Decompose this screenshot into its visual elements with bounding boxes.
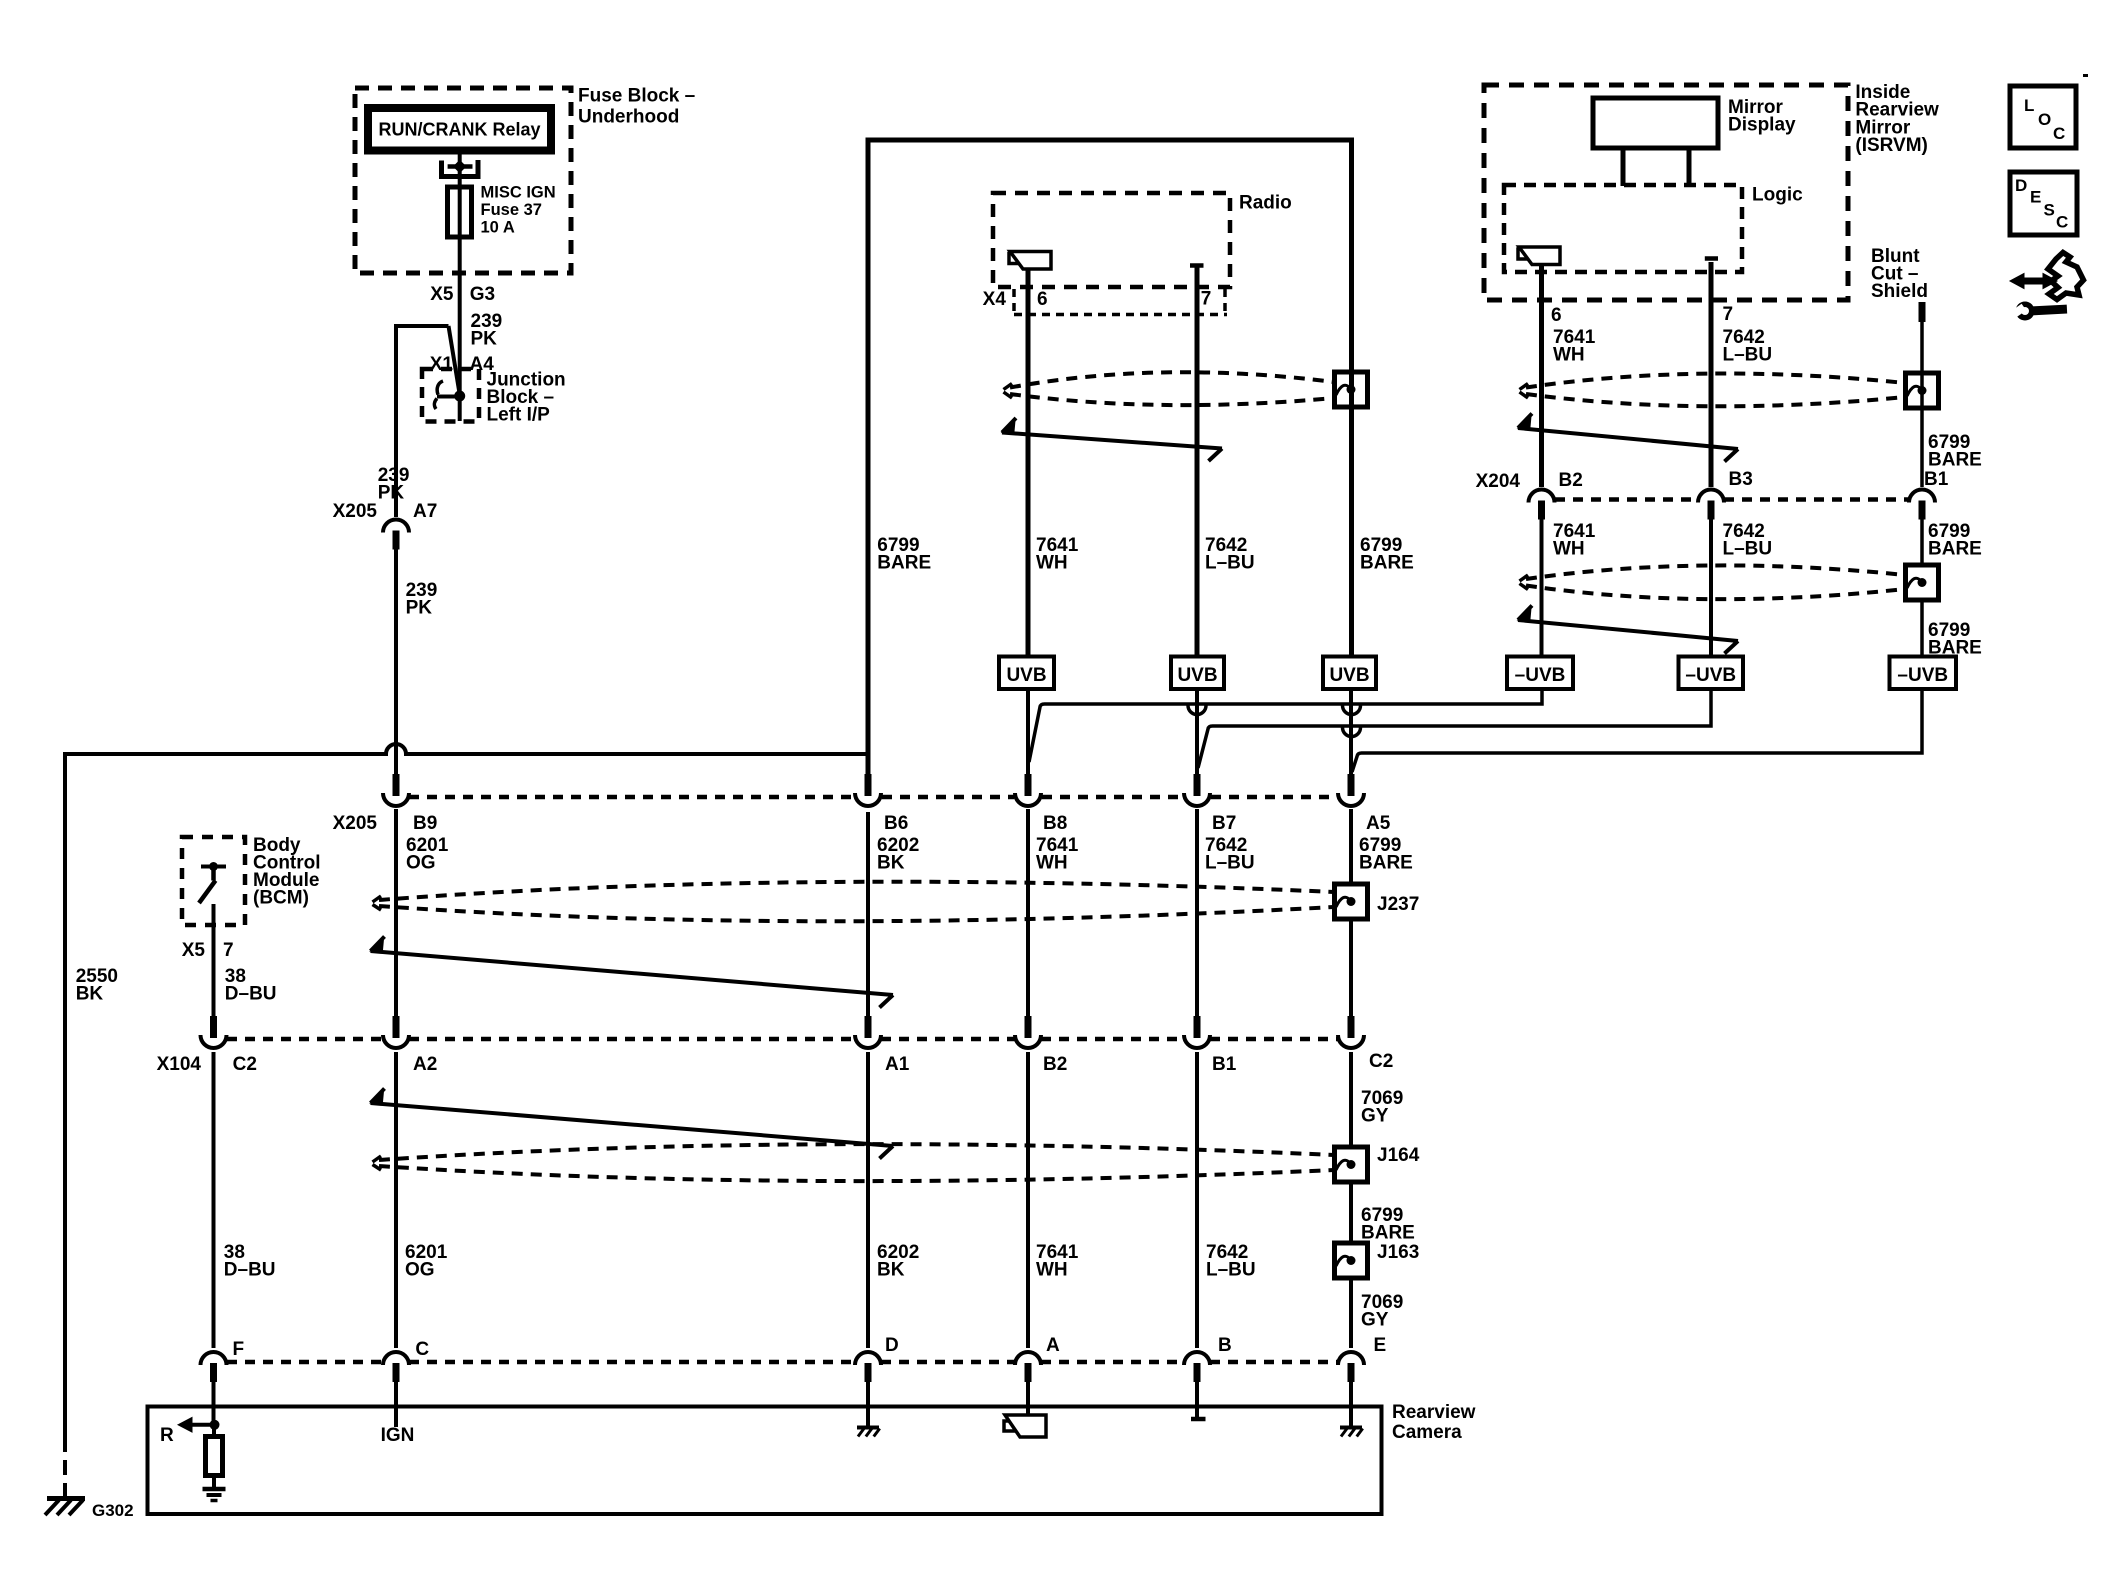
module radio dashed box [993,193,1230,287]
radio shield termination box [1335,372,1368,407]
connector X204 pin B3 [1698,490,1724,503]
corner tick mark [2083,74,2088,77]
shield loop X104 row [373,1156,382,1162]
wire B to camera minus [1195,1380,1199,1417]
twisted pair arrow radio [1002,418,1016,433]
legend double arrow [2010,274,2024,289]
connector X104 row dashed line [227,1037,383,1042]
svg-text:D–BU: D–BU [224,1260,276,1281]
svg-text:Camera: Camera [1392,1422,1462,1443]
legend LOC box [2010,86,2076,148]
svg-text:7: 7 [223,940,234,961]
junction block bus dot [454,391,465,402]
wire 7642 L-BU below X204 [1709,518,1713,657]
connector X104 pin B1 [1194,1016,1201,1038]
svg-text:X1: X1 [430,354,454,375]
connector X104 pin B2 [1025,1016,1032,1038]
inline label UVB 1 [999,657,1054,690]
wire radio pin6 7641 WH [1026,269,1031,657]
net join 7641 WH [1029,689,1542,762]
svg-text:PK: PK [378,483,405,504]
blunt shield termination box lower [1906,565,1939,600]
svg-text:J237: J237 [1377,894,1419,915]
wire 239 PK left leg upper [394,324,398,517]
svg-text:Display: Display [1728,115,1796,136]
junction block bus hook [437,381,443,395]
svg-text:X204: X204 [1476,471,1521,492]
svg-text:OG: OG [405,1260,435,1281]
svg-text:J164: J164 [1377,1145,1420,1166]
svg-text:C: C [2053,124,2065,143]
wire 2550 BK left vertical [63,752,67,1437]
svg-text:L–BU: L–BU [1723,539,1773,560]
wire 6202 BK seg2 [866,1052,870,1348]
svg-text:WH: WH [1553,345,1585,366]
wire relay output [458,151,462,168]
wire radio pin7 7642 L-BU [1195,266,1200,657]
svg-text:(BCM): (BCM) [253,888,309,909]
shield loop mirror upper [1520,384,1529,390]
connector pin A [1015,1352,1041,1365]
svg-text:Rearview: Rearview [1392,1402,1476,1423]
logic minus terminal [1705,256,1718,261]
wire 6201 OG seg1 [394,809,398,1017]
svg-text:UVB: UVB [1006,665,1046,686]
wire 7641 WH seg2 [1026,1052,1030,1348]
connector X205 pin B9 [393,774,400,796]
connector X205 pin B7 [1194,774,1201,796]
wire F to R input [212,1380,216,1425]
svg-text:Fuse 37: Fuse 37 [481,201,542,219]
inline label -UVB 3 [1890,657,1957,690]
shield loop mirror lower [1520,575,1529,581]
svg-text:PK: PK [406,598,433,619]
svg-text:G3: G3 [470,284,495,305]
wire 6201 OG seg2 [394,1052,398,1348]
twisted pair arrow X205 [371,937,385,952]
hop 7642 over 6799 [1343,728,1361,737]
svg-text:6: 6 [1551,305,1562,326]
wire 239 PK below A7 [394,549,398,776]
svg-text:MISC IGN: MISC IGN [481,184,556,202]
svg-text:X5: X5 [182,940,206,961]
svg-text:–UVB: –UVB [1685,665,1736,686]
svg-text:BK: BK [877,853,905,874]
svg-text:C2: C2 [1369,1051,1393,1072]
svg-text:IGN: IGN [381,1425,415,1446]
camera minus terminal [1191,1417,1206,1422]
splice J164 [1335,1147,1368,1182]
radio minus terminal [1190,263,1204,268]
hop 7641 over 7642 [1188,706,1206,715]
wire UVB2 to B7 [1195,689,1199,775]
svg-text:D: D [2015,176,2027,195]
connector X205 pin A7 [383,520,409,533]
twisted pair arrow mirror lower [1518,606,1532,621]
svg-text:L–BU: L–BU [1205,853,1255,874]
splice J237 [1335,884,1368,919]
inline label UVB 2 [1171,657,1224,690]
svg-text:WH: WH [1036,853,1068,874]
svg-text:X205: X205 [333,813,378,834]
wire 7069 GY seg2 [1349,919,1353,1017]
wire 7641 WH below X204 [1540,518,1544,657]
wire 6799 BARE below X204 [1920,518,1924,565]
camera ground rake E [1340,1426,1362,1430]
wire 7069 GY seg4 [1349,1278,1353,1348]
wire UVB1 to B8 [1026,689,1030,775]
svg-text:C: C [415,1339,429,1360]
svg-text:X104: X104 [157,1054,202,1075]
connector X205 pin A5 [1348,774,1355,796]
legend wrench [2012,302,2067,321]
camera internal ground [203,1487,226,1492]
svg-text:WH: WH [1553,539,1585,560]
mirror display legs [1621,148,1626,186]
svg-text:D: D [885,1335,899,1356]
svg-text:GY: GY [1361,1310,1389,1331]
svg-text:E: E [1374,1335,1387,1356]
connector X104 pin A2 [393,1016,400,1038]
svg-text:WH: WH [1036,553,1068,574]
svg-text:PK: PK [471,329,498,350]
svg-text:A5: A5 [1366,813,1391,834]
svg-text:Logic: Logic [1752,185,1803,206]
relay K RUN/CRANK box [368,108,551,151]
svg-text:–UVB: –UVB [1515,665,1566,686]
svg-text:GY: GY [1361,1106,1389,1127]
connector pin D [855,1352,881,1365]
svg-text:Shield: Shield [1871,281,1928,302]
svg-text:B: B [1218,1335,1232,1356]
svg-text:B1: B1 [1924,469,1949,490]
camera ground rake D [857,1426,879,1430]
module logic dashed box [1504,185,1742,272]
svg-text:A: A [1046,1335,1060,1356]
svg-text:E: E [2030,188,2041,207]
connector X104 pin C2 right [1348,1016,1355,1038]
wire mirror pin6 7641 WH [1539,264,1544,487]
fuse MISC IGN 37 body [448,187,472,237]
net join 7642 L-BU [1198,689,1711,768]
wire 7069 GY seg1 [1349,809,1353,884]
splice J163 [1335,1243,1368,1278]
wire 7642 L-BU seg1 [1195,809,1199,1017]
wire jumper to left leg [396,324,449,328]
wire 38 D-BU from BCM [212,904,216,1017]
wire D to camera ground [866,1380,870,1426]
svg-text:L–BU: L–BU [1723,345,1773,366]
wire 7641 WH seg1 [1026,809,1030,1017]
connector X205 pin B8 [1025,774,1032,796]
connector pin E [1338,1352,1364,1365]
wire through fuse [458,167,462,394]
svg-text:S: S [2044,201,2055,220]
connector pin C [383,1352,409,1365]
svg-text:J163: J163 [1377,1242,1419,1263]
svg-text:A7: A7 [413,501,437,522]
twisted pair arrow mirror upper [1518,414,1532,429]
svg-text:X205: X205 [333,501,378,522]
svg-text:D–BU: D–BU [225,984,277,1005]
svg-text:BARE: BARE [1928,638,1982,659]
connector X104 pin A1 [865,1016,872,1038]
svg-text:G302: G302 [92,1501,134,1520]
svg-text:BARE: BARE [1360,553,1414,574]
shield loop radio [1004,384,1013,390]
module ISRVM dashed box [1484,85,1848,300]
relay contact bar [448,164,473,169]
radio display icon [1009,254,1020,264]
svg-text:L–BU: L–BU [1205,553,1255,574]
wire mirror pin7 7642 L-BU [1709,262,1714,487]
connector pin B [1184,1352,1210,1365]
svg-text:B9: B9 [413,813,437,834]
camera connector row dashed line [227,1360,383,1365]
svg-text:BARE: BARE [1928,450,1982,471]
svg-text:L: L [2024,96,2034,115]
BCM switch contact [201,865,226,869]
svg-text:BK: BK [877,1260,905,1281]
svg-text:B7: B7 [1212,813,1236,834]
connector X4 shell [1012,289,1016,312]
wire 7069 GY seg3 [1349,1052,1353,1147]
net join 6799 BARE [1352,689,1922,772]
shield drain wire 6799 BARE box [868,140,1352,775]
svg-text:O: O [2038,110,2051,129]
wire UVB3 to A5 [1349,689,1353,775]
svg-text:Underhood: Underhood [578,107,679,128]
legend harness icon outline [2048,253,2084,300]
bus wire 2550 BK horizontal [65,744,866,754]
svg-text:R: R [160,1425,174,1446]
camera sensor icon [1004,1421,1015,1431]
camera R output arrow [178,1418,192,1433]
wire blunt cut 6799 BARE upper [1920,320,1924,487]
ground G302 symbol [47,1496,85,1501]
svg-text:RUN/CRANK Relay: RUN/CRANK Relay [378,120,540,140]
svg-text:F: F [233,1339,245,1360]
wire C to IGN input [394,1380,398,1427]
svg-text:B2: B2 [1559,470,1583,491]
wire 6799 BARE below box2 [1920,600,1924,657]
wire 38 D-BU seg2 [212,1052,216,1348]
blunt cut shield pin [1919,302,1926,322]
module rearview camera box [148,1407,1382,1515]
connector pin F [201,1352,227,1365]
junction block stub to box edge [458,396,462,421]
connector X204 pin B1 [1909,490,1935,503]
svg-text:Left I/P: Left I/P [487,405,551,426]
connector X204 pin B2 [1529,490,1555,503]
svg-text:A1: A1 [885,1054,910,1075]
svg-text:B1: B1 [1212,1054,1237,1075]
svg-text:A2: A2 [413,1054,437,1075]
blunt shield termination box upper [1906,373,1939,408]
svg-text:BK: BK [76,984,104,1005]
wire E to camera ground [1349,1380,1353,1426]
svg-text:WH: WH [1036,1260,1068,1281]
svg-text:BARE: BARE [1928,539,1982,560]
hop 7641 over 6799 [1343,706,1361,715]
svg-text:BARE: BARE [1359,853,1413,874]
twisted pair arrow X104 [371,1089,385,1104]
svg-text:B8: B8 [1043,813,1067,834]
legend DESC box [2010,172,2077,235]
svg-text:BARE: BARE [877,553,931,574]
svg-text:X5: X5 [430,284,454,305]
relay contact diamond [454,161,466,173]
junction block left IP dashed box [422,369,479,422]
svg-text:–UVB: –UVB [1897,665,1948,686]
logic display icon [1518,249,1529,259]
shield loop X205 row [373,896,382,902]
wire 6799 BARE seg [1349,1182,1353,1243]
inline label -UVB 1 [1507,657,1573,690]
svg-text:B6: B6 [884,813,908,834]
svg-text:B2: B2 [1043,1054,1067,1075]
svg-text:Fuse Block –: Fuse Block – [578,86,695,107]
svg-text:7: 7 [1201,289,1212,310]
connector X205 row dashed line [409,795,855,800]
svg-text:UVB: UVB [1177,665,1217,686]
svg-text:Radio: Radio [1239,193,1292,214]
svg-text:10 A: 10 A [481,219,515,237]
inline label UVB 3 [1323,657,1376,690]
svg-text:X4: X4 [983,289,1007,310]
fuse block underhood dashed box [355,88,571,273]
connector X104 pin C2 [210,1016,217,1038]
svg-text:(ISRVM): (ISRVM) [1855,135,1927,156]
svg-text:C: C [2056,213,2068,232]
wire 2550 BK dashed tail [63,1437,67,1497]
svg-text:UVB: UVB [1329,665,1369,686]
relay contact bracket [442,160,479,177]
svg-text:C2: C2 [233,1054,257,1075]
svg-text:OG: OG [406,853,436,874]
inline label -UVB 2 [1679,657,1744,690]
svg-text:B3: B3 [1729,469,1753,490]
wire A to camera sensor [1026,1380,1030,1415]
module BCM dashed box [182,837,245,925]
svg-text:7: 7 [1723,304,1734,325]
svg-text:L–BU: L–BU [1206,1260,1256,1281]
mirror display box [1593,98,1718,148]
wire 7642 L-BU seg2 [1195,1052,1199,1348]
connector X205 pin B6 [865,774,872,796]
camera pullup resistor [212,1425,216,1437]
wire 6202 BK seg1 [866,812,870,1017]
svg-text:6: 6 [1037,289,1048,310]
connector X204 row dashed line [1555,497,1698,502]
svg-text:BARE: BARE [1361,1223,1415,1244]
